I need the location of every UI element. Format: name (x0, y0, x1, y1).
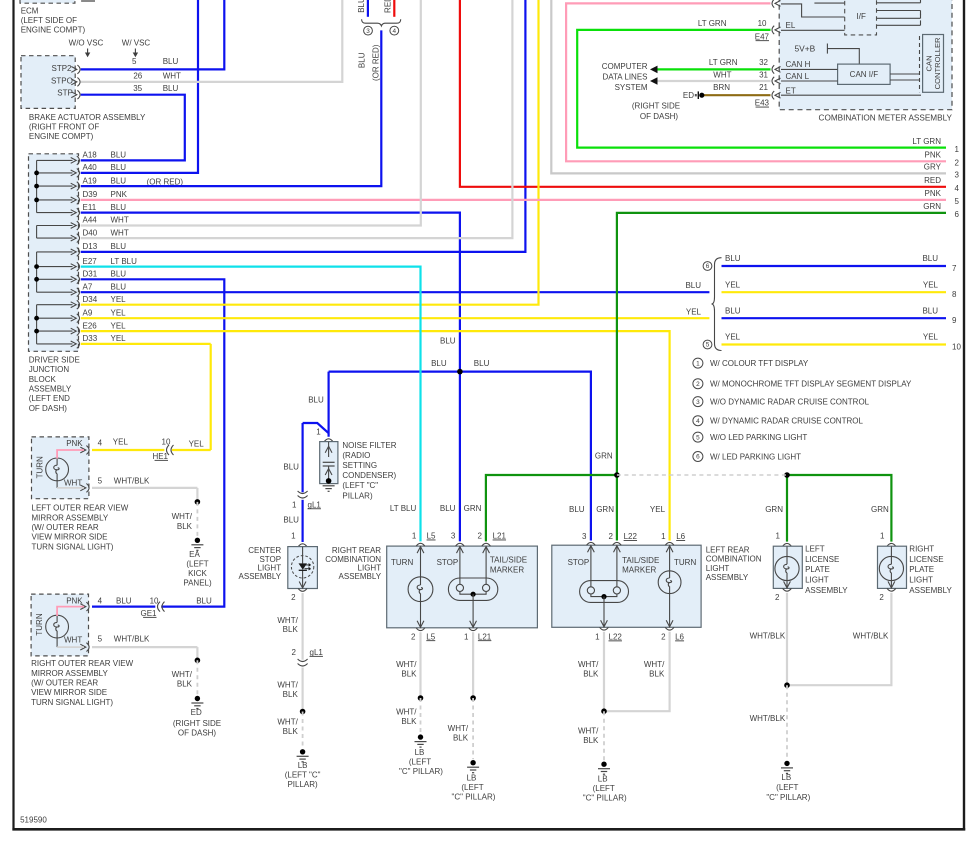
svg-text:I/F: I/F (857, 12, 866, 21)
svg-text:ASSEMBLY: ASSEMBLY (909, 586, 952, 595)
svg-text:YEL: YEL (725, 280, 741, 289)
svg-text:PNK: PNK (66, 597, 83, 606)
svg-text:31: 31 (759, 71, 768, 80)
svg-text:A7: A7 (83, 282, 93, 291)
svg-text:WHT/: WHT/ (396, 660, 417, 669)
svg-text:GRN: GRN (596, 505, 614, 514)
svg-text:PILLAR): PILLAR) (287, 780, 318, 789)
svg-text:WHT/: WHT/ (644, 660, 665, 669)
svg-text:TURN: TURN (391, 558, 413, 567)
svg-text:RED: RED (924, 176, 941, 185)
svg-text:WHT/BLK: WHT/BLK (114, 477, 150, 486)
svg-text:ED: ED (683, 91, 694, 100)
svg-text:7: 7 (952, 264, 957, 273)
svg-text:BLU: BLU (308, 396, 324, 405)
svg-text:EL: EL (786, 21, 796, 30)
svg-text:ASSEMBLY: ASSEMBLY (239, 572, 282, 581)
svg-text:LB: LB (598, 775, 608, 784)
svg-text:6: 6 (955, 210, 960, 219)
svg-text:L6: L6 (675, 633, 684, 642)
svg-text:(W/ OUTER REAR: (W/ OUTER REAR (32, 523, 99, 532)
svg-text:(LEFT: (LEFT (409, 758, 431, 767)
svg-text:BLU: BLU (111, 242, 127, 251)
svg-text:BLU: BLU (474, 359, 490, 368)
svg-text:PLATE: PLATE (909, 565, 934, 574)
svg-text:TURN SIGNAL LIGHT): TURN SIGNAL LIGHT) (32, 542, 114, 551)
svg-text:35: 35 (133, 84, 142, 93)
svg-text:TURN SIGNAL LIGHT): TURN SIGNAL LIGHT) (31, 698, 113, 707)
svg-text:gL1: gL1 (308, 500, 322, 509)
svg-text:NOISE FILTER: NOISE FILTER (342, 441, 396, 450)
svg-text:BLU: BLU (440, 337, 456, 346)
svg-text:PANEL): PANEL) (183, 579, 212, 588)
svg-text:4: 4 (696, 418, 700, 425)
svg-text:LIGHT: LIGHT (805, 576, 829, 585)
svg-text:MIRROR ASSEMBLY: MIRROR ASSEMBLY (32, 513, 109, 522)
svg-text:BLU: BLU (163, 57, 179, 66)
svg-text:L21: L21 (478, 632, 492, 641)
svg-text:DRIVER SIDE: DRIVER SIDE (29, 356, 80, 365)
svg-text:TAIL/SIDE: TAIL/SIDE (490, 556, 527, 565)
svg-text:LT GRN: LT GRN (698, 19, 727, 28)
svg-text:(LEFT: (LEFT (186, 559, 208, 568)
svg-text:PLATE: PLATE (805, 565, 830, 574)
svg-text:YEL: YEL (111, 308, 127, 317)
svg-text:(LEFT SIDE OF: (LEFT SIDE OF (21, 16, 77, 25)
svg-text:CAN L: CAN L (786, 72, 810, 81)
svg-text:D13: D13 (83, 242, 98, 251)
svg-text:PNK: PNK (925, 189, 942, 198)
svg-text:BLU: BLU (111, 163, 127, 172)
svg-text:STP: STP (57, 89, 73, 98)
svg-text:"C" PILLAR): "C" PILLAR) (399, 767, 443, 776)
svg-text:OF DASH): OF DASH) (178, 729, 217, 738)
svg-text:10: 10 (758, 19, 767, 28)
svg-text:ASSEMBLY: ASSEMBLY (805, 586, 848, 595)
svg-text:LEFT REAR: LEFT REAR (706, 545, 750, 554)
svg-text:2: 2 (411, 632, 416, 641)
svg-text:BLU: BLU (357, 0, 366, 13)
svg-text:32: 32 (759, 58, 768, 67)
svg-text:E27: E27 (83, 257, 98, 266)
svg-text:1: 1 (412, 532, 417, 541)
svg-text:OF DASH): OF DASH) (29, 404, 68, 413)
svg-text:GRY: GRY (924, 163, 942, 172)
svg-text:"C" PILLAR): "C" PILLAR) (452, 793, 496, 802)
svg-text:BLK: BLK (649, 669, 665, 678)
svg-text:LICENSE: LICENSE (909, 555, 943, 564)
svg-text:BLU: BLU (283, 462, 299, 471)
svg-text:PNK: PNK (66, 439, 83, 448)
svg-text:D34: D34 (83, 295, 98, 304)
svg-text:5: 5 (98, 634, 103, 643)
svg-text:(LEFT: (LEFT (776, 783, 798, 792)
svg-text:D31: D31 (83, 270, 98, 279)
svg-text:L5: L5 (427, 532, 436, 541)
svg-text:BLK: BLK (177, 680, 193, 689)
svg-text:"C" PILLAR): "C" PILLAR) (766, 793, 810, 802)
svg-text:LB: LB (781, 773, 791, 782)
svg-text:4: 4 (955, 184, 960, 193)
svg-text:LICENSE: LICENSE (805, 555, 839, 564)
svg-text:BLU: BLU (111, 270, 127, 279)
svg-text:YEL: YEL (113, 438, 129, 447)
svg-text:8: 8 (952, 290, 957, 299)
svg-text:E43: E43 (755, 99, 770, 108)
svg-text:W/O LED PARKING LIGHT: W/O LED PARKING LIGHT (710, 433, 807, 442)
svg-text:6: 6 (696, 454, 700, 461)
svg-text:BLU: BLU (440, 504, 456, 513)
svg-text:WHT/: WHT/ (448, 724, 469, 733)
svg-text:W/O VSC: W/O VSC (69, 38, 104, 47)
svg-text:(LEFT "C": (LEFT "C" (285, 771, 321, 780)
svg-text:D39: D39 (83, 190, 98, 199)
svg-text:A40: A40 (83, 163, 98, 172)
svg-text:WHT: WHT (111, 228, 129, 237)
svg-text:(W/ OUTER REAR: (W/ OUTER REAR (31, 679, 98, 688)
svg-text:4: 4 (393, 28, 397, 35)
svg-text:1: 1 (955, 145, 960, 154)
svg-text:L22: L22 (624, 532, 638, 541)
svg-text:A9: A9 (83, 308, 93, 317)
svg-text:BLK: BLK (583, 669, 599, 678)
svg-text:(LEFT END: (LEFT END (29, 394, 70, 403)
svg-text:BLK: BLK (401, 670, 417, 679)
svg-text:2: 2 (955, 159, 960, 168)
svg-text:21: 21 (759, 83, 768, 92)
svg-text:LT BLU: LT BLU (390, 504, 417, 513)
svg-text:LB: LB (415, 748, 425, 757)
svg-text:YEL: YEL (686, 307, 702, 316)
svg-text:(LEFT "C": (LEFT "C" (342, 481, 378, 490)
svg-text:W/ MONOCHROME TFT DISPLAY SEGM: W/ MONOCHROME TFT DISPLAY SEGMENT DISPLA… (710, 380, 912, 389)
svg-text:3: 3 (696, 399, 700, 406)
svg-text:(RIGHT SIDE: (RIGHT SIDE (632, 101, 680, 110)
svg-text:BLU: BLU (111, 176, 127, 185)
svg-text:YEL: YEL (650, 505, 666, 514)
svg-text:E11: E11 (83, 203, 97, 212)
svg-text:BLK: BLK (283, 625, 299, 634)
svg-text:LT GRN: LT GRN (709, 58, 738, 67)
svg-text:RED: RED (383, 0, 392, 13)
svg-text:EA: EA (189, 550, 200, 559)
svg-text:"C" PILLAR): "C" PILLAR) (583, 794, 627, 803)
svg-text:CAN H: CAN H (786, 60, 811, 69)
svg-text:ED: ED (191, 708, 202, 717)
svg-text:WHT/BLK: WHT/BLK (853, 631, 889, 640)
svg-text:9: 9 (952, 316, 957, 325)
svg-text:VIEW MIRROR SIDE: VIEW MIRROR SIDE (31, 688, 107, 697)
svg-text:WHT: WHT (713, 71, 731, 80)
svg-text:1: 1 (661, 532, 666, 541)
svg-text:CAN I/F: CAN I/F (850, 70, 879, 79)
svg-text:3: 3 (582, 532, 587, 541)
svg-text:ASSEMBLY: ASSEMBLY (29, 384, 72, 393)
svg-text:A18: A18 (83, 151, 98, 160)
svg-text:BLU: BLU (922, 254, 938, 263)
svg-text:BLU: BLU (111, 151, 127, 160)
svg-text:E47: E47 (755, 32, 770, 41)
svg-text:L6: L6 (676, 532, 685, 541)
svg-text:PILLAR): PILLAR) (342, 491, 373, 500)
svg-text:YEL: YEL (111, 295, 127, 304)
svg-text:5: 5 (696, 434, 700, 441)
svg-text:BLK: BLK (583, 736, 599, 745)
svg-text:BLK: BLK (401, 717, 417, 726)
svg-text:10: 10 (162, 438, 171, 447)
svg-text:LIGHT: LIGHT (909, 576, 933, 585)
svg-text:RIGHT OUTER REAR VIEW: RIGHT OUTER REAR VIEW (31, 659, 134, 668)
svg-text:(LEFT: (LEFT (461, 783, 483, 792)
svg-text:STPO: STPO (51, 77, 73, 86)
svg-text:BRAKE ACTUATOR ASSEMBLY: BRAKE ACTUATOR ASSEMBLY (29, 113, 146, 122)
svg-text:2: 2 (477, 532, 482, 541)
svg-text:2: 2 (879, 593, 884, 602)
svg-text:BLK: BLK (453, 734, 469, 743)
svg-text:WHT/BLK: WHT/BLK (750, 714, 786, 723)
svg-text:TAIL/SIDE: TAIL/SIDE (622, 556, 659, 565)
svg-text:YEL: YEL (189, 440, 205, 449)
svg-text:2: 2 (609, 532, 614, 541)
svg-text:BLU: BLU (196, 597, 212, 606)
svg-text:COMBINATION METER ASSEMBLY: COMBINATION METER ASSEMBLY (819, 114, 953, 123)
svg-text:BLU: BLU (111, 203, 127, 212)
svg-text:BLU: BLU (685, 281, 701, 290)
svg-text:(RIGHT SIDE: (RIGHT SIDE (173, 719, 221, 728)
svg-text:BLU: BLU (725, 306, 741, 315)
svg-text:GRN: GRN (765, 505, 783, 514)
svg-text:E26: E26 (83, 321, 98, 330)
svg-text:LT BLU: LT BLU (111, 257, 138, 266)
svg-text:BLU: BLU (283, 516, 299, 525)
svg-text:BLU: BLU (569, 505, 585, 514)
svg-text:RIGHT: RIGHT (909, 545, 934, 554)
svg-text:D33: D33 (83, 334, 98, 343)
svg-text:JUNCTION: JUNCTION (29, 365, 70, 374)
svg-text:GRN: GRN (871, 505, 889, 514)
svg-text:W/ LED PARKING LIGHT: W/ LED PARKING LIGHT (710, 452, 801, 461)
svg-text:VIEW MIRROR SIDE: VIEW MIRROR SIDE (32, 533, 108, 542)
svg-text:SYSTEM: SYSTEM (615, 83, 648, 92)
svg-text:ENGINE COMPT): ENGINE COMPT) (29, 132, 94, 141)
svg-text:CONTROLLER: CONTROLLER (933, 37, 942, 89)
svg-text:WHT: WHT (64, 636, 82, 645)
svg-text:BLK: BLK (283, 727, 299, 736)
svg-text:WHT: WHT (163, 72, 181, 81)
svg-text:10: 10 (952, 342, 961, 351)
svg-text:YEL: YEL (923, 333, 939, 342)
svg-text:BRN: BRN (713, 83, 730, 92)
svg-text:ECM: ECM (21, 7, 39, 16)
svg-text:L22: L22 (609, 633, 623, 642)
svg-text:GE1: GE1 (140, 609, 157, 618)
svg-text:LB: LB (467, 773, 477, 782)
svg-text:5: 5 (98, 477, 103, 486)
svg-text:W/ VSC: W/ VSC (122, 38, 151, 47)
svg-text:ASSEMBLY: ASSEMBLY (706, 573, 749, 582)
svg-text:1: 1 (696, 360, 700, 367)
svg-text:3: 3 (451, 532, 456, 541)
svg-text:519590: 519590 (20, 816, 47, 825)
svg-text:LEFT OUTER REAR VIEW: LEFT OUTER REAR VIEW (32, 504, 129, 513)
svg-text:STP2: STP2 (51, 64, 72, 73)
svg-text:GRN: GRN (464, 504, 482, 513)
svg-text:3: 3 (366, 28, 370, 35)
svg-text:(LEFT: (LEFT (593, 784, 615, 793)
svg-text:2: 2 (292, 648, 297, 657)
svg-text:GRN: GRN (923, 202, 941, 211)
svg-text:26: 26 (133, 72, 142, 81)
svg-text:BLU: BLU (163, 84, 179, 93)
svg-text:MARKER: MARKER (622, 565, 656, 574)
svg-text:WHT/: WHT/ (172, 512, 193, 521)
svg-text:5: 5 (955, 197, 960, 206)
svg-text:1: 1 (316, 427, 321, 436)
svg-text:BLK: BLK (177, 522, 193, 531)
svg-text:W/ DYNAMIC RADAR CRUISE CONTRO: W/ DYNAMIC RADAR CRUISE CONTROL (710, 417, 863, 426)
svg-text:HE1: HE1 (152, 452, 168, 461)
svg-text:L21: L21 (493, 532, 507, 541)
svg-text:W/O DYNAMIC RADAR CRUISE CONTR: W/O DYNAMIC RADAR CRUISE CONTROL (710, 397, 870, 406)
svg-text:L5: L5 (426, 632, 435, 641)
svg-text:STOP: STOP (568, 558, 590, 567)
svg-text:DATA LINES: DATA LINES (602, 72, 647, 81)
svg-text:4: 4 (98, 597, 103, 606)
svg-text:KICK: KICK (188, 569, 207, 578)
svg-text:2: 2 (775, 593, 780, 602)
svg-text:OF DASH): OF DASH) (640, 112, 679, 121)
svg-text:WHT/: WHT/ (396, 708, 417, 717)
svg-text:gL1: gL1 (310, 648, 324, 657)
svg-text:1: 1 (291, 532, 296, 541)
svg-text:2: 2 (696, 381, 700, 388)
svg-text:5: 5 (706, 342, 710, 349)
svg-text:COMBINATION: COMBINATION (706, 555, 762, 564)
svg-text:LB: LB (298, 761, 308, 770)
svg-text:BLU: BLU (922, 306, 938, 315)
svg-text:CONDENSER): CONDENSER) (342, 471, 396, 480)
svg-text:4: 4 (98, 439, 103, 448)
svg-text:PNK: PNK (925, 151, 942, 160)
svg-text:TURN: TURN (674, 558, 696, 567)
svg-text:1: 1 (292, 500, 297, 509)
svg-text:BLU: BLU (725, 254, 741, 263)
svg-text:A44: A44 (83, 216, 98, 225)
svg-text:LEFT: LEFT (805, 545, 825, 554)
svg-text:1: 1 (776, 531, 781, 540)
svg-text:BLU: BLU (111, 282, 127, 291)
svg-text:BLU: BLU (431, 359, 447, 368)
svg-text:1: 1 (464, 632, 469, 641)
svg-text:WHT/: WHT/ (277, 681, 298, 690)
svg-text:WHT: WHT (111, 216, 129, 225)
svg-text:5: 5 (132, 57, 137, 66)
svg-text:2: 2 (661, 633, 666, 642)
svg-text:GRN: GRN (595, 452, 613, 461)
svg-text:WHT/BLK: WHT/BLK (750, 631, 786, 640)
svg-text:BLU: BLU (116, 597, 132, 606)
svg-text:MIRROR ASSEMBLY: MIRROR ASSEMBLY (31, 669, 108, 678)
svg-text:WHT/: WHT/ (172, 670, 193, 679)
svg-text:6: 6 (706, 263, 710, 270)
svg-text:BLU: BLU (358, 52, 367, 68)
svg-text:(RIGHT FRONT OF: (RIGHT FRONT OF (29, 122, 99, 131)
svg-text:LIGHT: LIGHT (706, 564, 730, 573)
svg-text:LT GRN: LT GRN (912, 137, 941, 146)
svg-text:3: 3 (955, 171, 960, 180)
svg-text:A19: A19 (83, 176, 98, 185)
svg-text:1: 1 (880, 531, 885, 540)
svg-text:(RADIO: (RADIO (342, 451, 370, 460)
svg-text:WHT/BLK: WHT/BLK (114, 634, 150, 643)
svg-text:WHT: WHT (64, 479, 82, 488)
svg-text:COMPUTER: COMPUTER (602, 62, 648, 71)
svg-text:ET: ET (786, 86, 796, 95)
svg-text:YEL: YEL (111, 334, 127, 343)
svg-text:ENGINE COMPT): ENGINE COMPT) (21, 25, 86, 34)
svg-text:D40: D40 (83, 228, 98, 237)
svg-text:WHT/: WHT/ (578, 727, 599, 736)
svg-text:YEL: YEL (725, 333, 741, 342)
svg-text:MARKER: MARKER (490, 566, 524, 575)
svg-text:TURN: TURN (35, 613, 44, 635)
svg-text:BLOCK: BLOCK (29, 375, 57, 384)
svg-text:WHT/: WHT/ (277, 718, 298, 727)
svg-text:STOP: STOP (437, 558, 459, 567)
svg-text:YEL: YEL (111, 321, 127, 330)
svg-text:SETTING: SETTING (342, 461, 377, 470)
svg-text:BLK: BLK (283, 690, 299, 699)
svg-text:2: 2 (291, 593, 296, 602)
svg-text:PNK: PNK (111, 190, 128, 199)
svg-text:W/ COLOUR TFT DISPLAY: W/ COLOUR TFT DISPLAY (710, 359, 809, 368)
svg-text:WHT/: WHT/ (578, 660, 599, 669)
svg-text:YEL: YEL (923, 280, 939, 289)
svg-text:(OR RED): (OR RED) (372, 44, 381, 81)
svg-text:TURN: TURN (36, 456, 45, 478)
svg-text:ASSEMBLY: ASSEMBLY (339, 572, 382, 581)
svg-text:WHT/: WHT/ (277, 616, 298, 625)
svg-text:1: 1 (595, 633, 600, 642)
svg-text:5V+B: 5V+B (795, 44, 816, 54)
